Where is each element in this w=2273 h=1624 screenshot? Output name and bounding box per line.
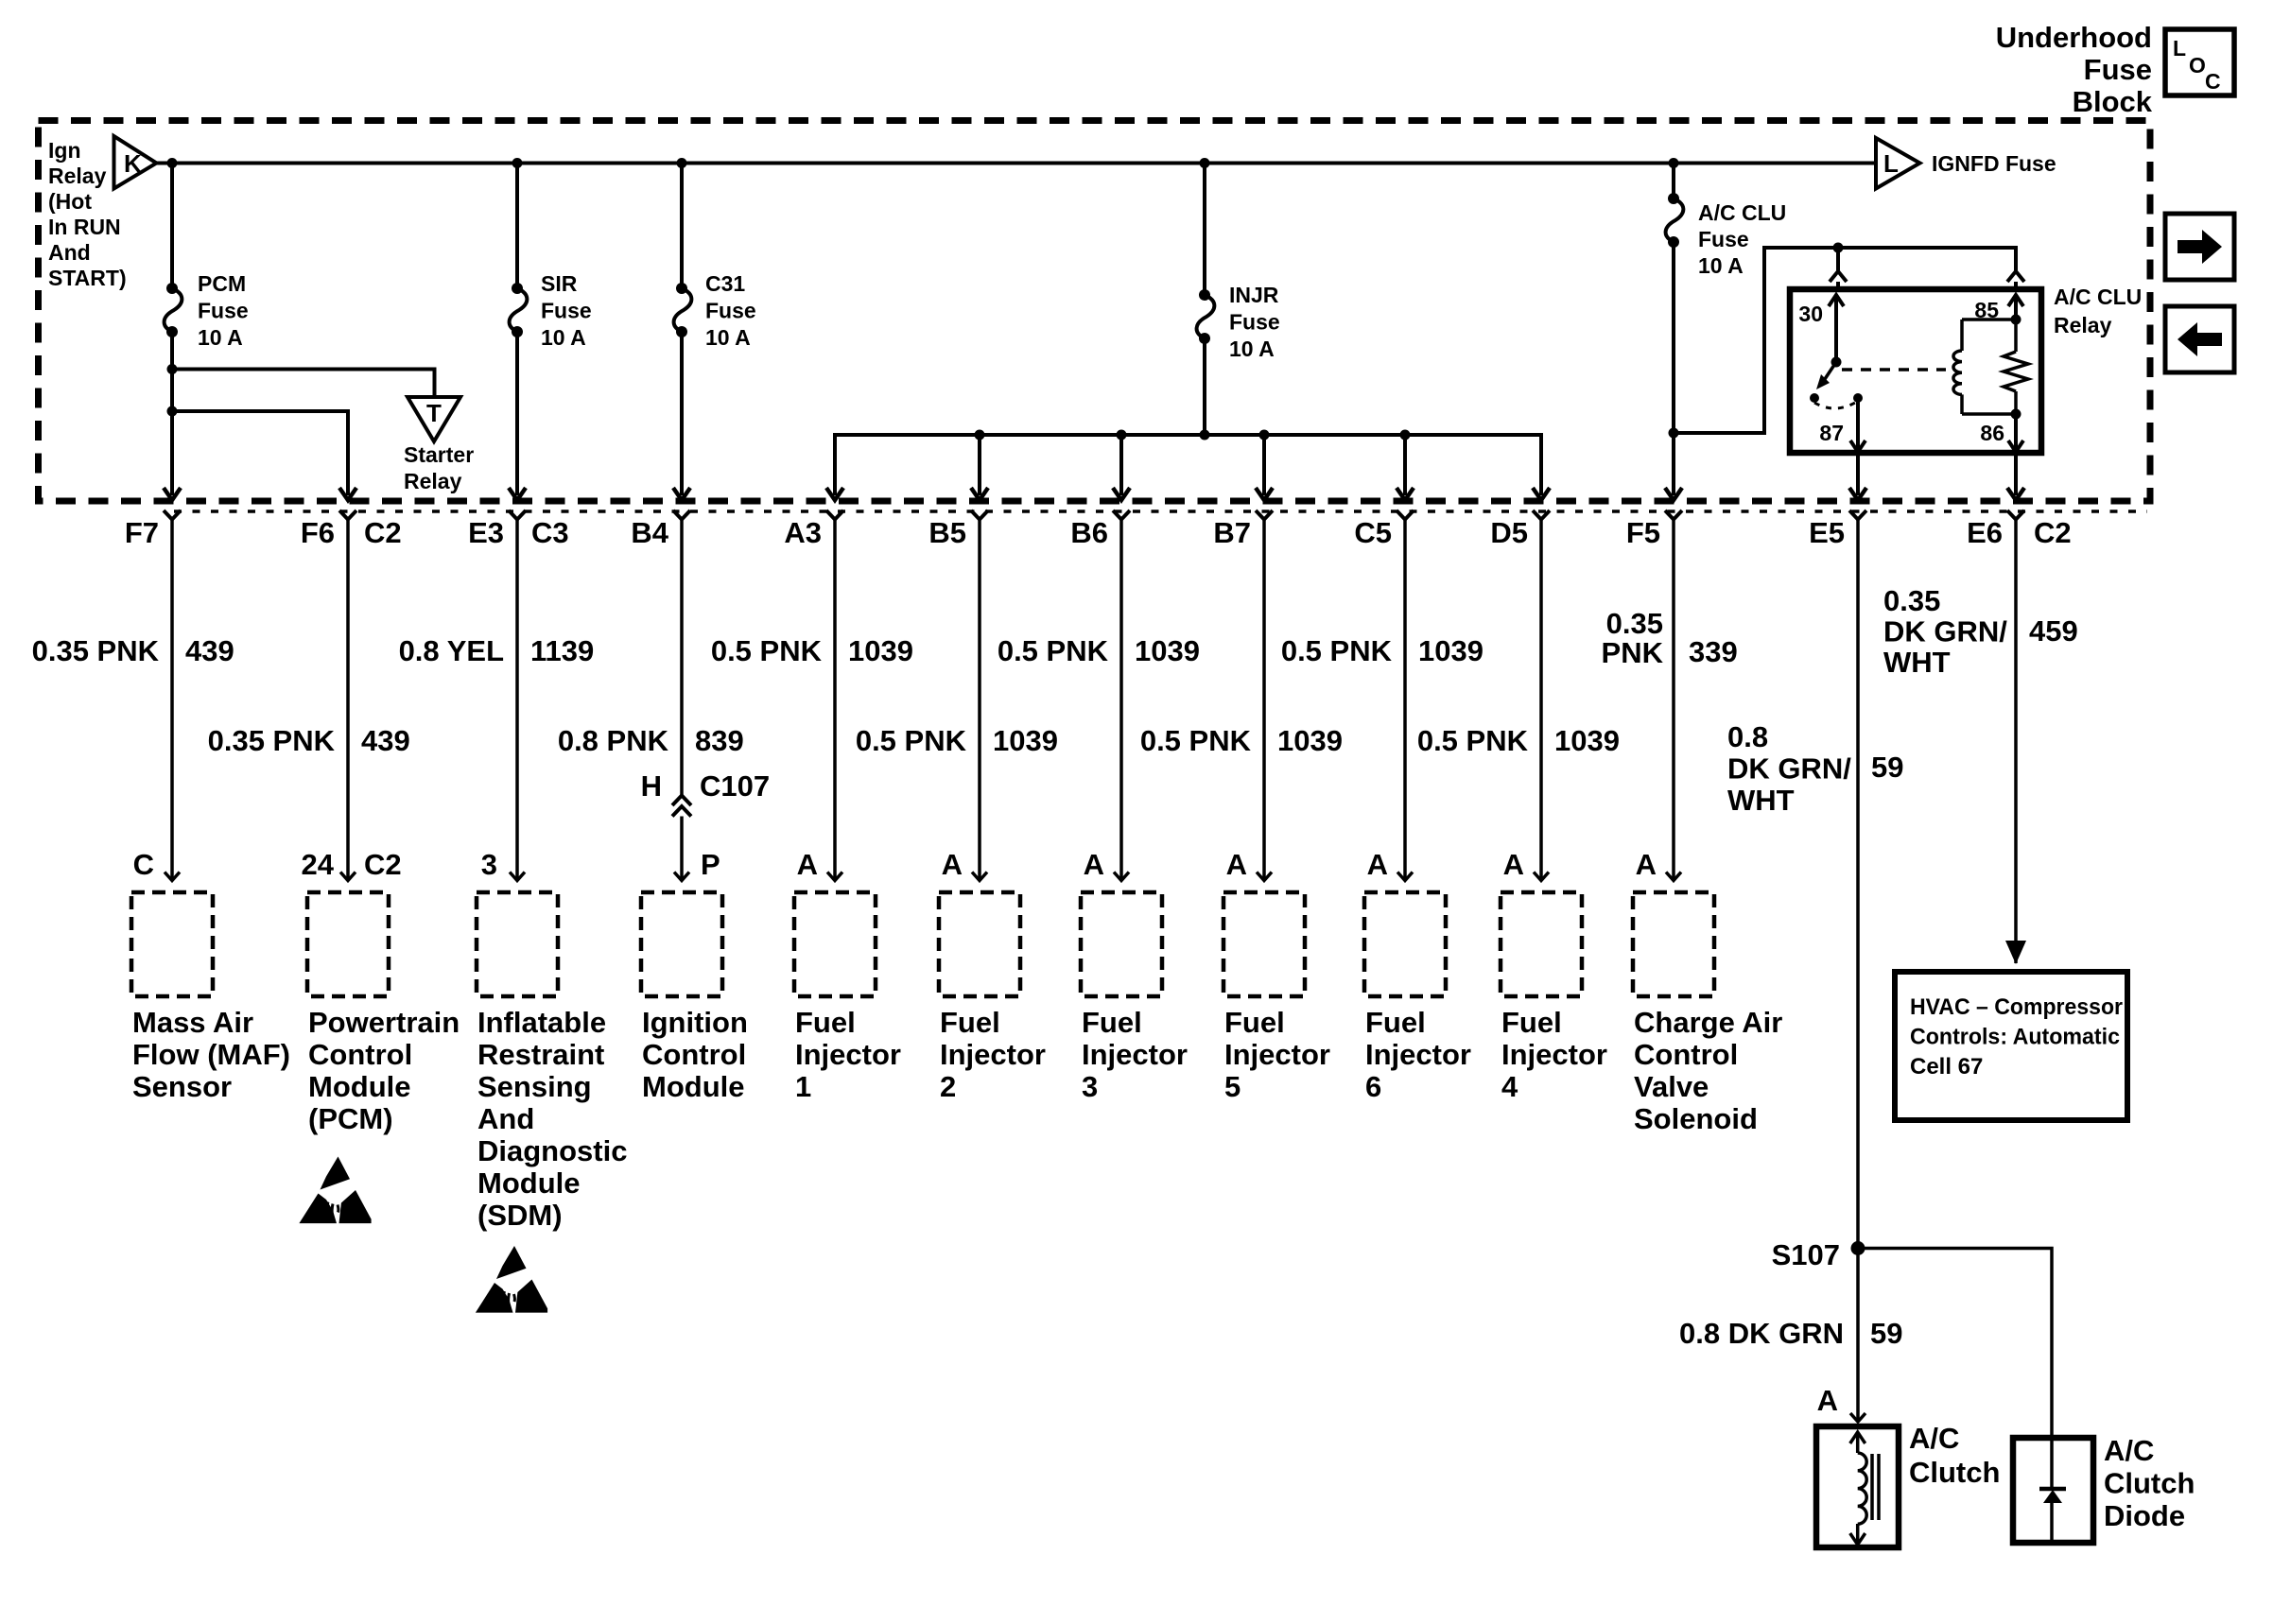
triangle terminal L (IGNFD Fuse) (1876, 138, 1920, 189)
junction dot injector bus x=1186 (1117, 430, 1127, 441)
svg-text:A: A (797, 848, 818, 881)
component box Fuel Injector 3 (1081, 892, 1162, 996)
svg-text:Clutch: Clutch (1909, 1456, 2000, 1489)
wire column x=182 (170, 520, 174, 881)
svg-text:24: 24 (302, 848, 335, 881)
connector arrow into block bottom x=1486 (1397, 488, 1414, 500)
svg-text:0.5 PNK: 0.5 PNK (1281, 634, 1393, 667)
svg-text:SIR: SIR (541, 271, 578, 296)
relay pin86 wire (2014, 414, 2018, 451)
junction dot main/AC CLU fuse (1669, 158, 1679, 168)
LOC locator box (2165, 29, 2234, 95)
svg-text:Module: Module (308, 1070, 411, 1103)
connector arrow into block bottom x=1770 (1665, 488, 1682, 500)
clutch coil wire bottom (1856, 1524, 1860, 1544)
svg-text:Fuel: Fuel (940, 1006, 1000, 1039)
connector arrow into block bottom x=547 (509, 488, 526, 500)
component entry chevron x=721 (674, 872, 689, 881)
svg-text:Injector: Injector (940, 1038, 1046, 1071)
svg-text:Restraint: Restraint (477, 1038, 604, 1071)
svg-text:10 A: 10 A (1698, 253, 1744, 278)
relay mechanical dashed link (1842, 368, 1946, 371)
svg-text:B6: B6 (1070, 516, 1108, 549)
svg-text:Underhood: Underhood (1996, 21, 2152, 54)
junction dot main/PCM fuse (167, 158, 178, 168)
component entry chevron x=368 (340, 872, 356, 881)
svg-text:Fuel: Fuel (1365, 1006, 1426, 1039)
svg-text:3: 3 (481, 848, 497, 881)
svg-text:1039: 1039 (1554, 724, 1620, 757)
relay switch contact dot (1810, 393, 1819, 403)
wire column E5 to S107 (1856, 520, 1860, 1249)
svg-text:L: L (1883, 149, 1899, 178)
triangle terminal K (Ign Relay) (114, 136, 157, 189)
svg-text:30: 30 (1798, 302, 1823, 326)
svg-text:0.5 PNK: 0.5 PNK (711, 634, 823, 667)
connector fork x=1186 (1113, 510, 1130, 520)
svg-text:IGNFD Fuse: IGNFD Fuse (1932, 151, 2056, 176)
connector fork x=721 (673, 510, 690, 520)
svg-text:C: C (133, 848, 154, 881)
junction dot PCM/starter branch (167, 364, 178, 374)
svg-text:Relay: Relay (404, 469, 462, 493)
svg-text:0.35 PNK: 0.35 PNK (32, 634, 160, 667)
hotlink right-arrow box (2165, 214, 2234, 280)
svg-text:Injector: Injector (1082, 1038, 1188, 1071)
wire column x=1770 (1672, 520, 1675, 881)
svg-text:DK GRN/: DK GRN/ (1883, 615, 2007, 648)
connector chevron pin85 (2007, 271, 2024, 282)
svg-text:Fuse: Fuse (541, 299, 592, 323)
svg-text:C3: C3 (531, 516, 569, 549)
svg-text:0.8: 0.8 (1727, 720, 1768, 753)
ESD symbol (SDM) (476, 1246, 547, 1313)
connector arrow into block bottom x=2132 (2007, 488, 2024, 500)
svg-text:87: 87 (1819, 421, 1844, 445)
svg-text:Powertrain: Powertrain (308, 1006, 460, 1039)
clutch internal up arrow (1850, 1432, 1865, 1443)
svg-text:Fuse: Fuse (705, 299, 756, 323)
connector arrow into block bottom x=1337 (1256, 488, 1273, 500)
wire pin30 chevron to box (1836, 282, 1840, 289)
svg-text:And: And (477, 1102, 534, 1135)
wire injector bus drop x=1486 (1403, 435, 1407, 495)
component entry chevron x=547 (510, 872, 525, 881)
junction dot injector bus x=1486 (1400, 430, 1411, 441)
relay switch dashed arc (1814, 403, 1855, 408)
relay coil loop top (1962, 318, 2016, 321)
svg-text:Valve: Valve (1634, 1070, 1709, 1103)
svg-text:10 A: 10 A (705, 325, 751, 350)
hotlink left-arrow (2178, 322, 2222, 356)
svg-text:Relay: Relay (2054, 313, 2112, 337)
svg-text:Mass Air: Mass Air (132, 1006, 253, 1039)
relay pin85 arrow (2008, 295, 2023, 306)
wire main to AC CLU fuse (1672, 164, 1675, 199)
svg-text:0.8 YEL: 0.8 YEL (399, 634, 504, 667)
svg-text:0.35 PNK: 0.35 PNK (208, 724, 336, 757)
wire column x=547 (515, 520, 519, 881)
svg-text:A: A (1636, 848, 1657, 881)
svg-text:Diode: Diode (2104, 1499, 2185, 1532)
svg-text:T: T (426, 399, 442, 427)
component box Fuel Injector 2 (939, 892, 1020, 996)
inline connector C107 chevrons (672, 796, 691, 806)
svg-text:1: 1 (795, 1070, 811, 1103)
connector arrow into block bottom x=1965 (1849, 488, 1866, 500)
svg-text:O: O (2189, 53, 2206, 78)
svg-text:C107: C107 (700, 769, 770, 803)
relay pin86 arrow (2008, 441, 2023, 452)
svg-text:A/C: A/C (2104, 1434, 2154, 1467)
svg-text:439: 439 (361, 724, 410, 757)
connector fork x=1770 (1665, 510, 1682, 520)
component box Fuel Injector 5 (1223, 892, 1305, 996)
connector arrow into block bottom x=1186 (1113, 488, 1130, 500)
svg-text:A/C CLU: A/C CLU (2054, 285, 2142, 309)
wire injector bus drop x=1036 (978, 435, 981, 495)
wire column x=1337 (1262, 520, 1266, 881)
diode wire lower (2050, 1503, 2054, 1541)
svg-text:Ignition: Ignition (642, 1006, 748, 1039)
svg-text:59: 59 (1871, 751, 1903, 784)
svg-text:Module: Module (642, 1070, 745, 1103)
svg-text:WHT: WHT (1883, 646, 1951, 679)
svg-text:Fuel: Fuel (1082, 1006, 1142, 1039)
svg-text:0.5 PNK: 0.5 PNK (856, 724, 967, 757)
relay coil (1953, 351, 1962, 394)
svg-text:Control: Control (308, 1038, 412, 1071)
svg-text:A: A (1817, 1384, 1838, 1417)
svg-text:Fuel: Fuel (1224, 1006, 1285, 1039)
connector fork x=547 (509, 510, 526, 520)
component box Inflatable Restraint SDM (477, 892, 558, 996)
svg-text:1039: 1039 (1277, 724, 1343, 757)
connector fork x=1337 (1256, 510, 1273, 520)
connector fork x=1965 (1849, 510, 1866, 520)
svg-text:L: L (2173, 36, 2186, 60)
wire injector bus (835, 435, 1541, 495)
svg-text:B5: B5 (928, 516, 966, 549)
svg-text:E5: E5 (1809, 516, 1845, 549)
wire main to SIR fuse (515, 164, 519, 289)
svg-text:6: 6 (1365, 1070, 1381, 1103)
svg-text:C: C (2205, 69, 2221, 94)
wire column x=1186 (1119, 520, 1123, 881)
svg-text:0.35: 0.35 (1883, 584, 1940, 617)
svg-text:839: 839 (695, 724, 744, 757)
svg-text:5: 5 (1224, 1070, 1241, 1103)
component entry chevron x=883 (827, 872, 842, 881)
wire column B4 lower (680, 817, 684, 881)
svg-text:Fuse: Fuse (198, 299, 249, 323)
svg-text:Injector: Injector (795, 1038, 901, 1071)
splice S107 dot (1851, 1241, 1865, 1255)
relay resistor upper lead (2014, 320, 2018, 352)
component box Powertrain Control Module (PCM) (307, 892, 389, 996)
svg-text:Fuse: Fuse (1698, 227, 1749, 251)
ESD symbol (PCM) (299, 1157, 371, 1224)
hotlink right-arrow (2178, 230, 2222, 264)
junction dot main/INJR fuse (1200, 158, 1210, 168)
svg-text:439: 439 (185, 634, 234, 667)
relay pin85 wire (2014, 295, 2018, 320)
wire branch PCM fuse to F6 (172, 411, 348, 495)
wire AC CLU fuse to F5 (1672, 242, 1675, 495)
wire main ignition feed (157, 162, 1877, 165)
svg-text:Controls: Automatic: Controls: Automatic (1910, 1025, 2120, 1050)
svg-text:2: 2 (940, 1070, 956, 1103)
svg-text:1039: 1039 (993, 724, 1058, 757)
component box Fuel Injector 6 (1364, 892, 1446, 996)
svg-text:Flow (MAF): Flow (MAF) (132, 1038, 290, 1071)
junction dot relay pin87 (1853, 393, 1863, 403)
wire injector bus drop x=1186 (1119, 435, 1123, 495)
connector fork x=1036 (971, 510, 988, 520)
wire S107 branch to diode (1858, 1249, 2052, 1439)
diode cathode bar (2039, 1487, 2066, 1492)
svg-text:B4: B4 (631, 516, 668, 549)
svg-text:86: 86 (1980, 421, 2004, 445)
svg-text:(PCM): (PCM) (308, 1102, 393, 1135)
wire column x=1486 (1403, 520, 1407, 881)
connector fork x=883 (826, 510, 843, 520)
svg-text:E3: E3 (468, 516, 504, 549)
svg-text:F6: F6 (301, 516, 335, 549)
svg-text:Clutch: Clutch (2104, 1467, 2195, 1500)
svg-text:Inflatable: Inflatable (477, 1006, 606, 1039)
diode wire upper (2050, 1438, 2054, 1489)
fuse INJR 10A (1199, 289, 1210, 301)
wire branch to starter relay (172, 370, 435, 398)
svg-text:INJR: INJR (1229, 283, 1279, 307)
svg-text:And: And (48, 240, 91, 265)
svg-text:Module: Module (477, 1166, 581, 1200)
connector fork x=2132 (2007, 510, 2024, 520)
svg-text:459: 459 (2029, 614, 2078, 648)
clutch entry chevron (1850, 1413, 1865, 1422)
connector chevron pin30 (1830, 271, 1847, 282)
wire pin85 chevron to box (2014, 282, 2018, 289)
svg-text:Block: Block (2073, 85, 2153, 118)
svg-text:Solenoid: Solenoid (1634, 1102, 1758, 1135)
svg-text:H: H (641, 769, 662, 803)
svg-text:C2: C2 (2034, 516, 2072, 549)
connector fork x=368 (339, 510, 356, 520)
wire relay pin87 to E5 (1856, 453, 1860, 495)
component entry chevron x=1486 (1397, 872, 1413, 881)
connector fork x=1486 (1397, 510, 1414, 520)
svg-text:A: A (1226, 848, 1247, 881)
wire branch AC fuse to relay feed (1674, 248, 2016, 433)
relay switch arm arrowhead (1816, 374, 1830, 389)
svg-text:(Hot: (Hot (48, 189, 92, 214)
connector fork x=182 (164, 510, 181, 520)
svg-text:Relay: Relay (48, 164, 107, 188)
component entry chevron x=1036 (972, 872, 987, 881)
junction dot injector bus x=1036 (975, 430, 985, 441)
wire column x=883 (833, 520, 837, 881)
wire INJR fuse to injector bus (1203, 338, 1206, 435)
junction dot coil bottom (2011, 409, 2021, 420)
svg-text:E6: E6 (1967, 516, 2003, 549)
component entry chevron x=182 (165, 872, 180, 881)
wire SIR fuse to E3 (515, 332, 519, 495)
svg-text:0.35: 0.35 (1606, 607, 1663, 640)
relay pin87 wire (1856, 398, 1860, 451)
clutch internal down arrow (1850, 1533, 1865, 1545)
component box Ignition Control Module (641, 892, 722, 996)
junction dot main/C31 fuse (677, 158, 687, 168)
connector arrow into block bottom x=1630 (1533, 488, 1550, 500)
wire column E6 to HVAC (2014, 520, 2018, 964)
connector arrow into block bottom x=721 (673, 488, 690, 500)
relay pin30 arrow (1829, 295, 1844, 306)
svg-text:C2: C2 (364, 516, 402, 549)
svg-text:F5: F5 (1626, 516, 1660, 549)
svg-text:Charge Air: Charge Air (1634, 1006, 1782, 1039)
svg-text:C5: C5 (1354, 516, 1392, 549)
svg-text:Ign: Ign (48, 138, 81, 163)
svg-text:Fuel: Fuel (1501, 1006, 1562, 1039)
svg-text:3: 3 (1082, 1070, 1098, 1103)
svg-text:10 A: 10 A (1229, 337, 1275, 361)
clutch core line 2 (1877, 1454, 1881, 1520)
junction dot main/SIR fuse (512, 158, 523, 168)
svg-text:Fuel: Fuel (795, 1006, 856, 1039)
svg-text:Sensor: Sensor (132, 1070, 232, 1103)
svg-text:WHT: WHT (1727, 784, 1795, 817)
wire column B4 upper (680, 520, 684, 796)
junction dot injector bus x=1337 (1259, 430, 1270, 441)
relay coil lower lead (1960, 394, 1964, 414)
diode anode triangle (2043, 1490, 2062, 1503)
connector arrow into block bottom x=883 (826, 488, 843, 500)
svg-text:A: A (942, 848, 963, 881)
svg-text:D5: D5 (1490, 516, 1528, 549)
svg-text:1039: 1039 (1418, 634, 1484, 667)
junction dot PCM/F6 branch (167, 406, 178, 417)
relay switch arm (1823, 362, 1836, 382)
wire relay pin86 to E6 (2014, 453, 2018, 495)
svg-text:1039: 1039 (1135, 634, 1200, 667)
svg-text:C31: C31 (705, 271, 745, 296)
svg-text:0.5 PNK: 0.5 PNK (998, 634, 1109, 667)
wire column x=368 (346, 520, 350, 881)
relay coil upper lead (1960, 320, 1964, 351)
component entry chevron x=1186 (1114, 872, 1129, 881)
relay coil loop bottom (1962, 412, 2016, 416)
junction dot coil top (2011, 315, 2021, 325)
component entry chevron x=1337 (1257, 872, 1272, 881)
svg-text:A3: A3 (784, 516, 822, 549)
arrowhead into HVAC box (2005, 941, 2026, 964)
svg-text:B7: B7 (1213, 516, 1251, 549)
svg-text:DK GRN/: DK GRN/ (1727, 752, 1851, 786)
svg-text:10 A: 10 A (198, 325, 243, 350)
relay resistor zigzag (2004, 352, 2028, 391)
svg-text:(SDM): (SDM) (477, 1199, 563, 1232)
svg-text:0.5 PNK: 0.5 PNK (1417, 724, 1529, 757)
svg-text:PCM: PCM (198, 271, 246, 296)
wire PCM fuse to F7 (170, 332, 174, 495)
wire C31 fuse to B4 (680, 332, 684, 495)
svg-text:Control: Control (642, 1038, 746, 1071)
svg-text:10 A: 10 A (541, 325, 586, 350)
svg-text:59: 59 (1870, 1317, 1902, 1350)
svg-text:C2: C2 (364, 848, 402, 881)
relay A/C CLU box (1790, 289, 2041, 453)
fuse A/C CLU 10A (1668, 193, 1679, 204)
svg-text:A: A (1503, 848, 1524, 881)
wire column x=1036 (978, 520, 981, 881)
svg-text:P: P (701, 848, 720, 881)
wire relay pin30 drop (1836, 248, 1840, 270)
fuse C31 10A (676, 283, 687, 294)
hotlink left-arrow box (2165, 306, 2234, 372)
svg-text:Control: Control (1634, 1038, 1738, 1071)
wire main to PCM fuse (170, 164, 174, 289)
svg-text:Starter: Starter (404, 442, 474, 467)
connector arrow into block bottom x=368 (339, 488, 356, 500)
svg-text:In RUN: In RUN (48, 215, 121, 239)
connector arrow into block bottom x=182 (164, 488, 181, 500)
relay pin30 wire (1834, 295, 1838, 362)
underhood fuse block dashed border (39, 121, 2151, 502)
svg-text:0.8 PNK: 0.8 PNK (558, 724, 669, 757)
svg-text:Fuse: Fuse (1229, 310, 1280, 335)
junction dot AC CLU branch (1669, 428, 1679, 439)
svg-text:F7: F7 (125, 516, 159, 549)
svg-text:Sensing: Sensing (477, 1070, 592, 1103)
relay pin87 arrow (1850, 441, 1865, 452)
fuse SIR 10A (512, 283, 523, 294)
wire injector bus drop x=1337 (1262, 435, 1266, 495)
wire main to INJR fuse (1203, 164, 1206, 296)
component box Fuel Injector 1 (794, 892, 876, 996)
junction dot injector bus x=1274 (1200, 430, 1210, 441)
A/C clutch box (1816, 1426, 1899, 1547)
component entry chevron x=1770 (1666, 872, 1681, 881)
wire S107 to A/C clutch (1856, 1248, 1860, 1420)
svg-text:START): START) (48, 266, 127, 290)
connector fork x=1630 (1533, 510, 1550, 520)
clutch core line 1 (1870, 1454, 1874, 1520)
svg-text:Fuse: Fuse (2084, 53, 2152, 86)
component entry chevron x=1630 (1534, 872, 1549, 881)
junction dot relay switch pivot (1831, 357, 1842, 368)
A/C clutch diode box (2013, 1438, 2093, 1543)
svg-text:Cell 67: Cell 67 (1910, 1054, 1983, 1080)
clutch coil (1858, 1453, 1867, 1524)
connector row thin dashed line (174, 510, 2147, 513)
fuse PCM 10A (166, 283, 178, 294)
svg-text:A/C CLU: A/C CLU (1698, 200, 1786, 225)
relay resistor lower lead (2014, 391, 2018, 414)
svg-text:0.5 PNK: 0.5 PNK (1140, 724, 1252, 757)
svg-text:PNK: PNK (1602, 636, 1664, 669)
component box Mass Air Flow (MAF) Sensor (131, 892, 213, 996)
clutch coil wire top (1856, 1432, 1860, 1453)
svg-text:1139: 1139 (530, 634, 594, 667)
wire main to C31 fuse (680, 164, 684, 289)
svg-text:S107: S107 (1772, 1238, 1840, 1271)
svg-text:A: A (1367, 848, 1388, 881)
svg-text:Injector: Injector (1224, 1038, 1330, 1071)
triangle terminal T (Starter Relay) (408, 397, 460, 441)
junction dot relay pin30 feed (1833, 243, 1844, 253)
HVAC reference box (1895, 972, 2127, 1120)
